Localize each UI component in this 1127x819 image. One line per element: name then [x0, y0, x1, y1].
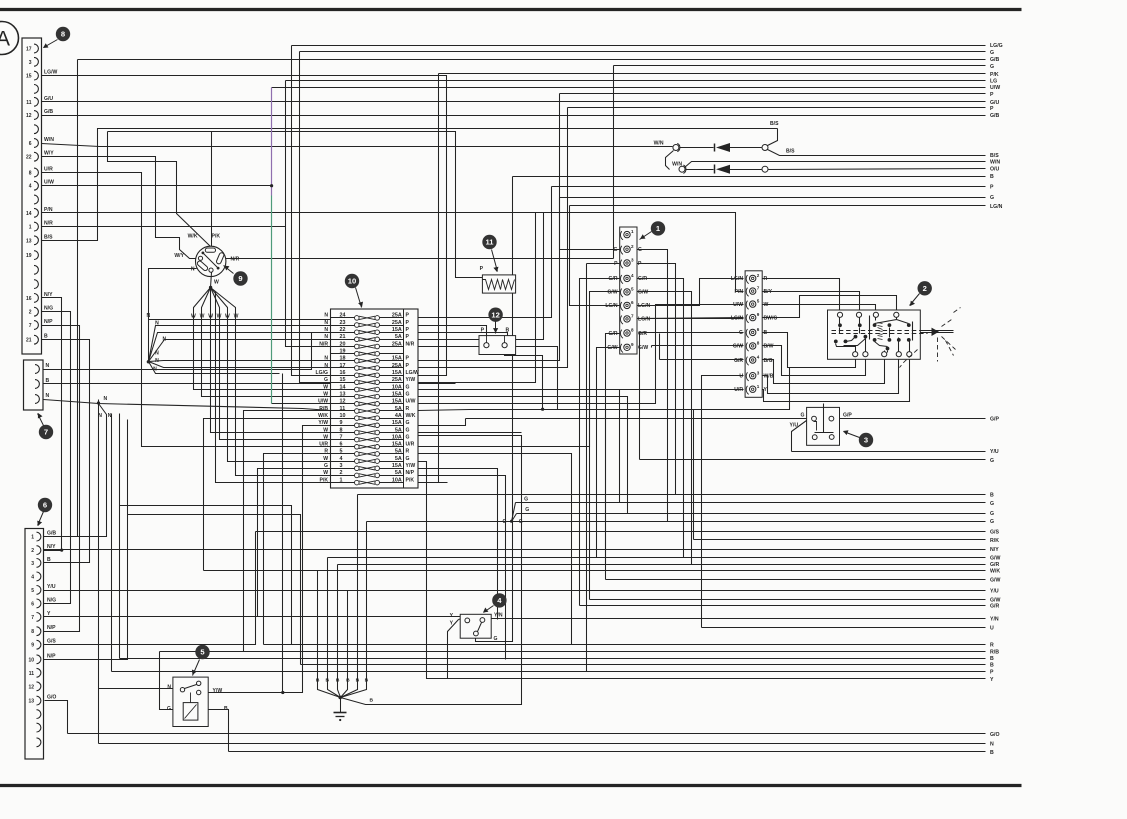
wire N fan c: [149, 340, 331, 362]
svg-text:7: 7: [631, 314, 634, 319]
svg-text:8: 8: [61, 30, 65, 39]
wire B/G connB to switch2: [762, 357, 885, 384]
svg-text:B: B: [346, 678, 350, 684]
svg-text:N: N: [990, 741, 994, 747]
svg-text:N/P: N/P: [406, 470, 415, 476]
svg-text:11: 11: [485, 238, 494, 247]
svg-text:N/G: N/G: [44, 306, 53, 312]
wire G fuse 9 right: [418, 419, 466, 426]
vert G/W connB: [651, 346, 653, 348]
svg-text:Y/U: Y/U: [990, 588, 999, 594]
svg-text:W: W: [323, 456, 328, 462]
svg-text:G/R: G/R: [638, 276, 647, 282]
svg-text:Y/N: Y/N: [990, 617, 999, 623]
wire B/Y connB to switch2: [762, 292, 860, 313]
svg-text:U/W: U/W: [406, 399, 416, 405]
svg-text:2: 2: [631, 244, 634, 249]
wire G/W connB feed: [652, 345, 744, 347]
svg-text:15A: 15A: [392, 463, 402, 469]
node N labels at junction: [98, 396, 112, 419]
wire U/R from connector 8 to fuse 6: [42, 173, 331, 447]
svg-text:W: W: [225, 314, 230, 320]
svg-text:Y/W: Y/W: [213, 688, 223, 694]
svg-text:R: R: [990, 643, 994, 649]
svg-text:G/B: G/B: [990, 113, 999, 119]
svg-text:G/W: G/W: [638, 290, 648, 296]
svg-text:8: 8: [31, 629, 34, 635]
wire B from connector 7: [44, 383, 456, 385]
wire U/W vertical lower (green print tint): [271, 196, 273, 404]
svg-text:3: 3: [864, 436, 868, 445]
wire staircase B: [128, 515, 301, 665]
svg-text:N/R: N/R: [319, 341, 328, 347]
wire W to fuse 7: [220, 312, 331, 440]
connector 7 (strip): [24, 360, 50, 410]
wire W/K to right edge: [204, 419, 1001, 575]
vertical YW junction up: [282, 374, 284, 693]
wire G to right edge: [512, 511, 995, 521]
wire N/P from connector 8 to strip 6: [42, 326, 80, 632]
svg-text:5: 5: [31, 588, 34, 594]
svg-text:P: P: [990, 669, 994, 675]
wire N fan e: [149, 362, 331, 368]
svg-text:W/N: W/N: [654, 141, 664, 147]
wire R/K to right edge: [694, 410, 1000, 544]
svg-text:16: 16: [26, 296, 32, 302]
wire U/R fuse 6 right to conn B: [418, 390, 744, 447]
svg-text:G/R: G/R: [638, 331, 647, 337]
svg-text:P/K: P/K: [990, 72, 999, 78]
badge 2: [910, 281, 932, 306]
wire B feeder 4: [347, 591, 349, 630]
svg-text:N: N: [104, 396, 108, 402]
svg-text:G: G: [324, 377, 328, 383]
wire N fan b: [149, 333, 312, 362]
wire LG/G to right edge: [292, 43, 1003, 376]
svg-text:13: 13: [26, 238, 32, 244]
wire Y to right edge: [448, 620, 995, 683]
svg-text:Y: Y: [450, 613, 454, 619]
svg-text:15A: 15A: [392, 442, 402, 448]
wire P to right edge: [112, 414, 995, 676]
svg-text:B/W: B/W: [764, 344, 774, 350]
svg-text:N/G: N/G: [47, 597, 56, 603]
svg-text:P: P: [638, 261, 642, 267]
svg-text:U: U: [990, 625, 994, 631]
wire G to right edge: [367, 519, 995, 525]
svg-text:G: G: [494, 636, 498, 642]
svg-text:U/W: U/W: [990, 85, 1000, 91]
svg-text:1: 1: [631, 229, 634, 234]
badge 3: [843, 430, 873, 447]
wire B to right edge: [301, 662, 995, 668]
svg-text:N: N: [324, 334, 328, 340]
svg-text:U: U: [739, 374, 743, 380]
wire B to right edge: [476, 174, 995, 641]
svg-text:7: 7: [29, 323, 32, 329]
svg-text:G/U: G/U: [990, 100, 999, 106]
component 4 switch: [450, 613, 503, 643]
svg-text:6: 6: [29, 141, 32, 147]
svg-text:G/P: G/P: [843, 413, 852, 419]
wire P/K line: [108, 132, 483, 278]
svg-text:G: G: [167, 706, 171, 712]
svg-text:N: N: [191, 267, 195, 273]
svg-text:3: 3: [631, 258, 634, 263]
svg-text:5A: 5A: [395, 470, 402, 476]
wire B feeder 6: [366, 522, 368, 630]
vert P conn1 3: [586, 264, 588, 672]
svg-text:G: G: [406, 427, 410, 433]
svg-text:17: 17: [26, 47, 32, 53]
svg-text:P: P: [406, 334, 410, 340]
svg-text:15A: 15A: [392, 356, 402, 362]
svg-text:G/R: G/R: [990, 562, 999, 568]
wire G to right edge: [614, 64, 995, 259]
svg-text:B: B: [316, 678, 320, 684]
svg-text:B: B: [990, 656, 994, 662]
connector 6 (strip): [25, 529, 56, 760]
svg-text:R: R: [764, 276, 768, 282]
svg-text:R: R: [324, 449, 328, 455]
svg-text:P: P: [406, 313, 410, 319]
svg-text:N: N: [147, 313, 151, 319]
wire G to right edge: [300, 50, 995, 383]
svg-text:15A: 15A: [392, 327, 402, 333]
svg-text:Y/U: Y/U: [47, 584, 56, 590]
svg-text:15A: 15A: [392, 391, 402, 397]
badge 7: [38, 413, 54, 439]
vert G/R connB: [659, 334, 661, 360]
svg-text:LG: LG: [990, 79, 997, 85]
svg-text:P/K: P/K: [320, 477, 329, 483]
svg-text:W: W: [323, 470, 328, 476]
svg-text:W/N: W/N: [990, 160, 1000, 166]
wire fuse 11 left: [244, 411, 331, 652]
wire LG/N connB feed: [636, 318, 744, 319]
svg-text:5: 5: [631, 287, 634, 292]
svg-text:W/K: W/K: [318, 413, 328, 419]
svg-text:R: R: [406, 406, 410, 412]
svg-text:8: 8: [29, 171, 32, 177]
wire P/K fuse 1 left: [216, 292, 331, 483]
wire P to right edge: [418, 92, 995, 361]
wire N/Y to right edge: [44, 547, 1000, 553]
svg-text:N: N: [46, 363, 50, 369]
svg-text:LG/N: LG/N: [638, 317, 650, 323]
svg-text:5A: 5A: [395, 406, 402, 412]
svg-text:LG/N: LG/N: [731, 315, 743, 321]
svg-text:G/R: G/R: [608, 276, 617, 282]
ground point: [316, 436, 522, 722]
wire N from connector 7 sloped: [44, 400, 331, 411]
svg-text:2: 2: [923, 284, 927, 293]
svg-text:G: G: [638, 247, 642, 253]
svg-text:G/P: G/P: [990, 416, 999, 422]
svg-text:P: P: [990, 185, 994, 191]
svg-text:U/W: U/W: [318, 399, 328, 405]
svg-text:G: G: [801, 413, 805, 419]
svg-text:G: G: [324, 463, 328, 469]
svg-text:G: G: [990, 195, 994, 201]
svg-text:G/W: G/W: [638, 345, 648, 351]
wire B to right edge: [209, 710, 995, 756]
svg-text:1: 1: [31, 535, 34, 541]
wire N/Y from connector 8 to strip 6: [42, 298, 62, 551]
wire P to right edge: [418, 185, 995, 318]
svg-text:P: P: [480, 266, 484, 272]
svg-text:B: B: [326, 678, 330, 684]
svg-text:B: B: [990, 750, 994, 756]
svg-text:9: 9: [238, 274, 242, 283]
wire G/R conn1 4r: [636, 279, 684, 558]
wire G/B to right edge: [44, 57, 1000, 537]
svg-text:5: 5: [757, 299, 760, 304]
svg-text:G: G: [406, 384, 410, 390]
svg-text:4: 4: [340, 456, 343, 462]
svg-text:N/P: N/P: [47, 625, 56, 631]
wire R fuse 5 right: [418, 454, 572, 645]
wire N/R fuse 20 right: [418, 347, 558, 410]
component 9 ignition switch: [174, 234, 239, 286]
svg-text:U/R: U/R: [406, 442, 415, 448]
svg-text:G/S: G/S: [47, 639, 56, 645]
W wire fan from ignition switch: [149, 269, 239, 320]
svg-text:7: 7: [44, 428, 48, 437]
bottom border frame line: [0, 784, 1022, 787]
wire LG/N to right edge: [570, 204, 1003, 306]
svg-text:LG/G: LG/G: [990, 43, 1003, 49]
svg-text:5A: 5A: [395, 456, 402, 462]
wire G conn1 2r: [636, 250, 668, 522]
wire G/P to right edge: [834, 416, 1000, 422]
svg-text:1: 1: [29, 225, 32, 231]
svg-text:B/G: B/G: [764, 358, 773, 364]
svg-text:A: A: [0, 28, 10, 51]
wire W/K staircase: [108, 132, 211, 247]
svg-text:B: B: [990, 662, 994, 668]
wire N/R from connector 8 to fuse 20: [42, 227, 331, 347]
svg-text:O/U: O/U: [990, 167, 999, 173]
wire R connB to switch2: [762, 279, 840, 313]
wire G to right edge: [640, 333, 995, 465]
svg-text:W/K: W/K: [990, 568, 1000, 574]
svg-text:P: P: [406, 327, 410, 333]
svg-text:N: N: [155, 320, 159, 326]
svg-text:14: 14: [26, 211, 32, 217]
svg-text:LG/G: LG/G: [316, 370, 328, 376]
svg-text:P/K: P/K: [212, 234, 221, 240]
connector 8 (bulkhead connector strip): [22, 38, 57, 354]
svg-text:4A: 4A: [395, 413, 402, 419]
badge 6: [37, 498, 52, 526]
svg-text:P: P: [406, 363, 410, 369]
svg-text:15A: 15A: [392, 370, 402, 376]
svg-text:G: G: [406, 420, 410, 426]
wire W/Y from connector 8 to switch 9: [42, 157, 199, 259]
wire Y/N switch4 stub: [485, 619, 490, 620]
wire B feeder 2: [327, 558, 329, 630]
wire G fuse 15 left: [300, 382, 331, 384]
svg-text:R/K: R/K: [990, 538, 999, 544]
svg-text:B/S: B/S: [770, 121, 779, 127]
wire G/W conn1 5r: [636, 292, 692, 565]
wire B from connector 8 to strip 6: [42, 340, 90, 563]
svg-text:P: P: [614, 261, 618, 267]
svg-text:13: 13: [28, 699, 34, 705]
wire U/W vertical upper (purple print tint): [271, 88, 273, 196]
wire P/K fuse 1 right: [418, 482, 448, 484]
wire staircase A: [120, 506, 292, 645]
wire G relay5: [160, 652, 173, 710]
svg-text:G: G: [990, 458, 994, 464]
svg-text:N: N: [324, 327, 328, 333]
svg-text:P: P: [406, 320, 410, 326]
svg-text:G: G: [739, 330, 743, 336]
svg-text:G/W: G/W: [607, 290, 617, 296]
wire N branch to strip 6: [44, 404, 107, 537]
badge 4: [483, 593, 507, 612]
svg-text:N: N: [46, 393, 50, 399]
svg-text:10A: 10A: [392, 477, 402, 483]
svg-text:LG/N: LG/N: [731, 276, 743, 282]
svg-text:N: N: [324, 320, 328, 326]
wire B connB to switch2: [762, 333, 856, 368]
svg-text:W: W: [323, 384, 328, 390]
svg-text:P: P: [990, 92, 994, 98]
svg-text:BW/G: BW/G: [764, 315, 778, 321]
svg-text:23: 23: [340, 320, 346, 326]
wire LG/G fuse 16 left: [292, 375, 331, 377]
svg-text:25A: 25A: [392, 341, 402, 347]
svg-text:W/N: W/N: [44, 137, 54, 143]
svg-text:3: 3: [31, 561, 34, 567]
svg-text:7: 7: [757, 286, 760, 291]
diode D2 with bullet connectors: [666, 151, 1001, 174]
wire Y/W fuse 9 left to relay: [283, 426, 331, 693]
svg-text:W/K: W/K: [188, 234, 198, 240]
node G labels: [503, 497, 530, 526]
svg-text:W: W: [217, 314, 222, 320]
wire N vertical: [148, 320, 150, 362]
svg-text:W/B: W/B: [764, 374, 774, 380]
wire P fuse 21 right: [418, 213, 544, 340]
svg-text:W: W: [208, 314, 213, 320]
wire P fuse 23 right to conn 12: [418, 326, 487, 343]
wire W to fuse 14: [194, 312, 331, 390]
svg-text:U/R: U/R: [319, 442, 328, 448]
svg-text:11: 11: [26, 100, 32, 106]
badge 5: [192, 645, 210, 676]
wire B fuse 22 right to conn 12: [418, 333, 508, 343]
wire B to right edge: [120, 414, 995, 663]
svg-text:U/R: U/R: [44, 167, 53, 173]
svg-text:N: N: [153, 366, 157, 372]
svg-text:B: B: [47, 557, 51, 563]
svg-text:G: G: [524, 497, 528, 503]
svg-text:W: W: [323, 434, 328, 440]
wire N from connector 7 to fuse 22: [44, 333, 331, 370]
svg-text:12: 12: [491, 310, 499, 319]
wire N to right edge: [99, 400, 995, 748]
svg-text:G/W: G/W: [990, 556, 1000, 562]
wire G fuse 8 right: [418, 432, 522, 434]
svg-text:G/W: G/W: [990, 597, 1000, 603]
svg-text:G: G: [525, 507, 529, 513]
svg-text:W/Y: W/Y: [174, 253, 184, 259]
wire BW/G connB to switch2: [762, 296, 897, 318]
svg-text:R/B: R/B: [990, 650, 999, 656]
svg-text:N: N: [167, 685, 171, 691]
wire U/W from connector 8: [42, 185, 272, 187]
svg-text:N: N: [155, 358, 159, 364]
wire B feeder 1: [317, 571, 319, 630]
wire G fuse 4 right: [418, 462, 448, 679]
wire G/U to right edge: [42, 100, 1000, 106]
wire B/S from connector 8 to diode: [42, 129, 778, 241]
wire N fan d: [149, 361, 331, 362]
component 11 heated rear screen: [480, 266, 516, 293]
wire LG/N conn1 6r: [636, 279, 744, 306]
svg-text:G/R: G/R: [608, 331, 617, 337]
svg-text:4: 4: [757, 355, 760, 360]
wire N/R from switch 9: [225, 258, 614, 260]
svg-text:R: R: [406, 449, 410, 455]
svg-text:5A: 5A: [395, 449, 402, 455]
svg-text:LG/N: LG/N: [638, 303, 650, 309]
svg-text:W: W: [764, 302, 769, 308]
badge 12: [488, 308, 502, 334]
wire N fan a: [149, 326, 331, 362]
svg-text:P: P: [406, 356, 410, 362]
svg-text:8: 8: [757, 341, 760, 346]
svg-text:G/B: G/B: [44, 109, 53, 115]
svg-text:LG/W: LG/W: [406, 370, 419, 376]
wire W to fuse 4: [228, 312, 331, 462]
wire W/B connB to switch2: [762, 357, 899, 394]
svg-text:6: 6: [631, 300, 634, 305]
svg-text:G: G: [990, 501, 994, 507]
svg-text:G: G: [614, 247, 618, 253]
svg-text:G/U: G/U: [44, 96, 53, 102]
component 2 master lighting switch: [828, 308, 961, 368]
svg-text:B: B: [46, 378, 50, 384]
svg-text:G/S: G/S: [990, 530, 999, 536]
svg-text:10: 10: [348, 277, 356, 286]
wire LG/W from connector 8 to fuse 16: [42, 76, 447, 376]
wire YW relay5: [201, 692, 283, 694]
svg-text:G: G: [406, 434, 410, 440]
svg-text:6: 6: [43, 501, 47, 510]
svg-text:11: 11: [29, 671, 35, 677]
svg-text:10: 10: [28, 657, 34, 663]
svg-text:Y/W: Y/W: [318, 420, 328, 426]
svg-text:G: G: [503, 519, 507, 525]
svg-text:U/W: U/W: [733, 302, 743, 308]
wire N from connector 7 b: [44, 369, 312, 371]
svg-text:LG/N: LG/N: [605, 303, 617, 309]
svg-text:7: 7: [31, 615, 34, 621]
wire P conn1 3: [587, 263, 622, 265]
svg-text:B/S: B/S: [44, 234, 53, 240]
wire Y/U to right edge: [792, 421, 999, 456]
wire G fuse 13 right: [418, 397, 628, 514]
svg-text:N: N: [155, 351, 159, 357]
svg-text:15A: 15A: [392, 420, 402, 426]
badge 9: [224, 266, 248, 286]
wire G/W to right edge: [606, 410, 1001, 584]
svg-text:3: 3: [29, 60, 32, 66]
